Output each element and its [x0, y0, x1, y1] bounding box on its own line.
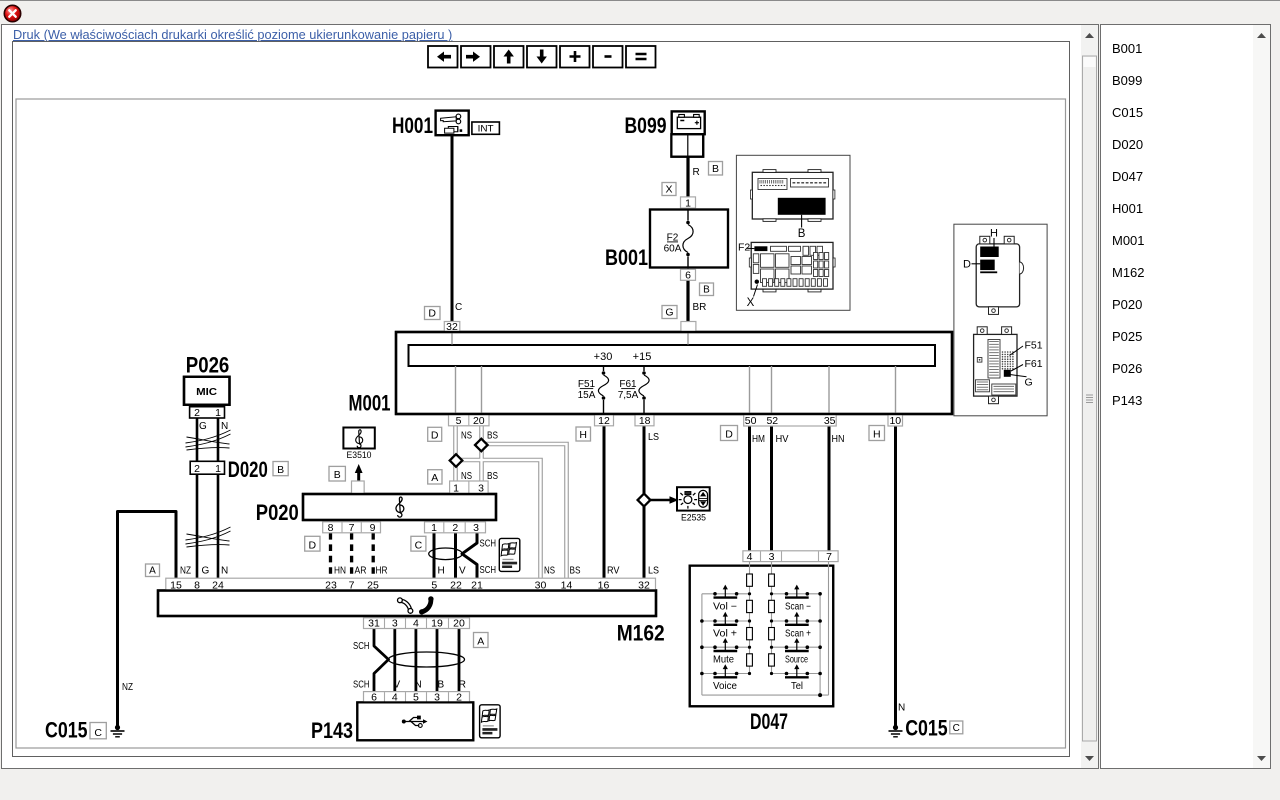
svg-text:Scan −: Scan −: [785, 601, 811, 612]
svg-text:E3510: E3510: [347, 450, 372, 460]
svg-text:6: 6: [685, 270, 691, 282]
svg-text:5: 5: [456, 415, 462, 427]
svg-text:C: C: [94, 727, 102, 739]
svg-text:Vol +: Vol +: [713, 629, 737, 640]
svg-text:INT: INT: [478, 124, 494, 135]
svg-text:D: D: [309, 539, 317, 551]
svg-text:A: A: [149, 566, 156, 577]
svg-text:7,5A: 7,5A: [618, 390, 639, 401]
svg-text:BS: BS: [487, 471, 498, 482]
svg-text:HM: HM: [752, 434, 765, 445]
svg-text:+30: +30: [594, 351, 613, 363]
svg-text:LS: LS: [648, 432, 659, 443]
svg-text:12: 12: [598, 415, 610, 427]
svg-text:N: N: [898, 703, 905, 714]
svg-text:X: X: [747, 297, 755, 309]
svg-text:E2535: E2535: [681, 512, 706, 522]
svg-text:H: H: [438, 566, 445, 577]
svg-text:C: C: [415, 539, 423, 551]
svg-text:2: 2: [194, 407, 200, 419]
svg-text:SCH: SCH: [480, 539, 497, 550]
svg-text:AR: AR: [355, 566, 367, 577]
svg-text:SCH: SCH: [353, 680, 370, 691]
svg-text:NS: NS: [544, 566, 555, 577]
svg-text:20: 20: [453, 618, 465, 630]
svg-text:A: A: [431, 472, 438, 484]
svg-text:Tel: Tel: [791, 681, 803, 692]
svg-text:D020: D020: [228, 457, 268, 482]
svg-text:Mute: Mute: [713, 655, 734, 666]
svg-text:31: 31: [368, 618, 380, 630]
svg-text:3: 3: [473, 522, 479, 534]
svg-text:G: G: [1025, 377, 1033, 389]
svg-text:C: C: [953, 723, 960, 734]
svg-text:HN: HN: [832, 434, 845, 445]
svg-text:F61: F61: [1025, 358, 1043, 370]
svg-text:G: G: [199, 421, 207, 432]
svg-text:HR: HR: [376, 566, 388, 577]
svg-text:+15: +15: [633, 351, 652, 363]
svg-text:N: N: [415, 680, 422, 691]
svg-text:M162: M162: [617, 621, 665, 646]
svg-text:SCH: SCH: [480, 565, 497, 576]
svg-text:SCH: SCH: [353, 641, 370, 652]
svg-text:D: D: [431, 430, 439, 442]
svg-text:BS: BS: [487, 431, 498, 442]
svg-text:B: B: [277, 464, 284, 476]
svg-text:H: H: [873, 429, 881, 441]
svg-text:8: 8: [328, 522, 334, 534]
svg-text:52: 52: [766, 415, 778, 427]
svg-text:20: 20: [473, 415, 485, 427]
svg-text:B: B: [712, 163, 719, 175]
svg-text:MIC: MIC: [196, 387, 217, 398]
svg-text:G: G: [202, 566, 210, 577]
svg-text:1: 1: [431, 522, 437, 534]
svg-text:3: 3: [392, 618, 398, 630]
svg-text:P026: P026: [186, 353, 230, 378]
svg-text:A: A: [477, 636, 484, 648]
svg-text:9: 9: [370, 522, 376, 534]
svg-text:Vol −: Vol −: [713, 601, 737, 612]
svg-text:H: H: [990, 228, 998, 240]
svg-text:B: B: [703, 285, 710, 296]
svg-text:D047: D047: [750, 709, 788, 734]
svg-text:Source: Source: [785, 655, 808, 666]
svg-text:D: D: [963, 259, 971, 271]
svg-text:D: D: [428, 308, 436, 320]
svg-text:3: 3: [769, 551, 775, 563]
svg-text:C015: C015: [905, 716, 948, 741]
svg-text:V: V: [394, 680, 401, 691]
svg-text:Voice: Voice: [713, 681, 737, 692]
svg-text:N: N: [221, 566, 228, 577]
svg-text:P020: P020: [256, 500, 299, 525]
svg-text:19: 19: [431, 618, 443, 630]
svg-text:B: B: [334, 469, 341, 481]
svg-text:HN: HN: [334, 566, 346, 577]
svg-text:B: B: [438, 680, 445, 691]
svg-text:R: R: [693, 167, 700, 178]
svg-text:F2: F2: [738, 242, 750, 254]
svg-text:BR: BR: [693, 302, 707, 313]
svg-text:2: 2: [452, 522, 458, 534]
svg-text:7: 7: [826, 551, 832, 563]
svg-text:R: R: [459, 680, 466, 691]
svg-text:NS: NS: [461, 431, 472, 442]
svg-text:BS: BS: [570, 566, 581, 577]
svg-text:B: B: [798, 228, 806, 240]
svg-text:H001: H001: [392, 113, 433, 138]
svg-text:G: G: [665, 307, 673, 319]
svg-text:B099: B099: [625, 113, 667, 138]
svg-text:RV: RV: [607, 566, 620, 577]
svg-text:60A: 60A: [664, 243, 682, 254]
svg-text:B001: B001: [605, 245, 648, 270]
svg-text:15A: 15A: [578, 390, 596, 401]
svg-text:1: 1: [215, 463, 221, 475]
svg-text:D: D: [725, 429, 733, 441]
svg-text:7: 7: [349, 522, 355, 534]
svg-text:F51: F51: [1025, 340, 1043, 352]
svg-text:H: H: [579, 429, 587, 441]
svg-text:N: N: [221, 421, 228, 432]
svg-text:LS: LS: [648, 566, 659, 577]
svg-text:1: 1: [685, 197, 691, 209]
svg-text:NZ: NZ: [180, 566, 191, 577]
svg-text:P143: P143: [311, 718, 353, 743]
svg-text:Scan +: Scan +: [785, 629, 811, 640]
svg-text:4: 4: [413, 618, 419, 630]
svg-text:10: 10: [889, 415, 901, 427]
svg-text:C: C: [455, 302, 462, 313]
svg-text:4: 4: [747, 551, 753, 563]
svg-text:HV: HV: [776, 434, 789, 445]
svg-text:2: 2: [194, 463, 200, 475]
svg-text:V: V: [459, 566, 466, 577]
svg-text:NZ: NZ: [122, 682, 133, 693]
svg-text:50: 50: [745, 415, 757, 427]
svg-text:NS: NS: [461, 471, 472, 482]
svg-text:35: 35: [824, 415, 836, 427]
svg-text:C015: C015: [45, 718, 88, 743]
svg-text:X: X: [665, 184, 672, 196]
svg-text:1: 1: [215, 407, 221, 419]
svg-text:M001: M001: [349, 391, 391, 416]
svg-text:18: 18: [639, 415, 651, 427]
